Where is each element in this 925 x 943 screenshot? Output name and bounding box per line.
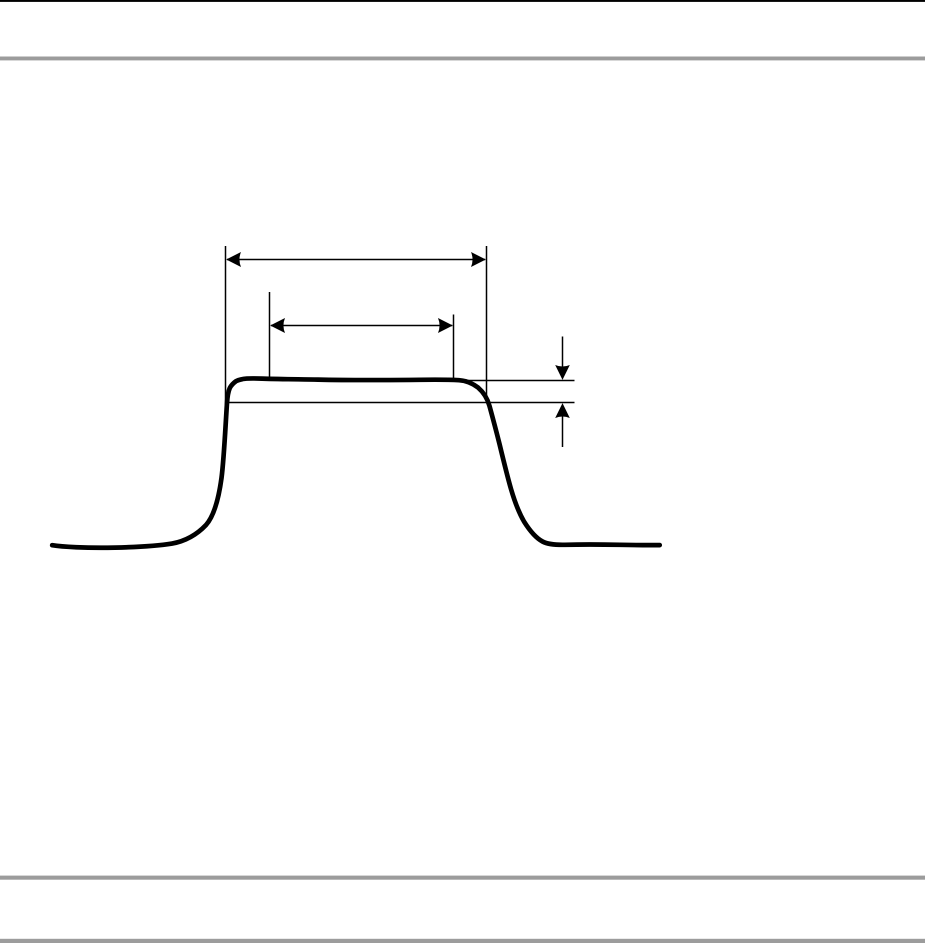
top page rule (black) <box>0 0 925 2</box>
left extension line of pulse-duration dimension <box>225 246 227 406</box>
right extension line of pulse-duration dimension <box>486 246 488 403</box>
pulse waveform curve <box>52 378 660 547</box>
lower amplitude reference line <box>226 402 575 404</box>
amplitude tolerance down arrowhead <box>555 365 570 380</box>
footer rule (gray) <box>0 876 925 880</box>
outer dimension left arrowhead <box>226 252 241 267</box>
amplitude tolerance down arrow stem <box>562 337 564 369</box>
inner dimension left arrowhead <box>270 318 285 333</box>
inner dimension right arrowhead <box>438 318 453 333</box>
outer dimension right arrowhead <box>471 252 486 267</box>
inner dimension line (pulse top duration) <box>271 325 452 327</box>
bottom page rule (gray) <box>0 939 925 943</box>
left extension line of pulse-top dimension <box>269 292 271 377</box>
header rule (gray) <box>0 57 925 61</box>
pulse-top amplitude reference line <box>461 380 575 382</box>
amplitude tolerance up arrow stem <box>562 415 564 447</box>
outer dimension line (pulse duration) <box>227 259 485 261</box>
right extension line of pulse-top dimension <box>453 315 455 379</box>
amplitude tolerance up arrowhead <box>555 403 570 418</box>
